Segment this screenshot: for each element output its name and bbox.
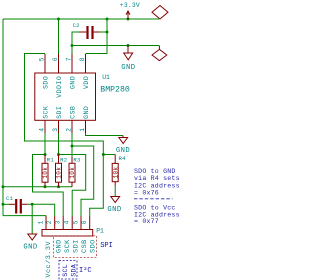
wire SDO pin5 top	[25, 54, 104, 217]
U1 pin numbers bottom 4 3 2 1	[39, 128, 87, 132]
U1 pin names bottom row	[42, 106, 90, 119]
junction GND symbol on rail 2	[127, 44, 130, 47]
U1 pin stubs top	[45, 54, 86, 73]
wire C2 left branch	[72, 32, 79, 54]
ground chip pin1	[119, 136, 128, 144]
junction R1 top / SCK	[44, 153, 47, 156]
wire CSB to R3	[71, 146, 73, 157]
svg-text:2: 2	[66, 128, 73, 132]
junction R1 bottom	[44, 185, 47, 188]
note divider	[134, 198, 173, 200]
svg-text:R2: R2	[60, 157, 67, 164]
svg-text:Vcc/3.3V: Vcc/3.3V	[45, 241, 53, 278]
svg-text:C1: C1	[6, 195, 14, 202]
U1 pin numbers top 5 6 7 8	[38, 57, 86, 61]
ground top (wire2)	[124, 46, 133, 60]
svg-text:I²C: I²C	[79, 267, 92, 275]
svg-text:5: 5	[38, 57, 45, 61]
svg-text:10k: 10k	[112, 167, 119, 179]
svg-text:C2: C2	[73, 22, 80, 29]
svg-text:SDA: SDA	[70, 264, 77, 277]
svg-text:SPI: SPI	[100, 242, 113, 250]
wire vcc to P1 pin1	[3, 215, 46, 217]
svg-text:U1: U1	[102, 74, 110, 81]
wire vcc resistor rail	[3, 186, 72, 188]
junction vcc rail left	[2, 185, 5, 188]
svg-text:GND: GND	[107, 206, 121, 214]
wire gnd to P1 pin2	[32, 204, 55, 216]
ground bottom left	[28, 234, 37, 240]
junction VDD drop on +3.3V rail	[106, 18, 109, 21]
P1 pin stubs	[46, 216, 90, 230]
I2C dashed box	[59, 261, 77, 280]
junction +3.3V power symbol	[127, 18, 130, 21]
resistor R3	[69, 157, 75, 187]
svg-text:BMP280: BMP280	[100, 85, 130, 94]
svg-text:6: 6	[81, 220, 88, 224]
resistor R1	[42, 155, 48, 187]
junction R2 bottom	[57, 185, 60, 188]
wire C2 right branch	[100, 31, 107, 33]
svg-text:R1: R1	[47, 157, 55, 164]
flag diamond top	[152, 6, 168, 20]
svg-text:3: 3	[55, 220, 62, 224]
junction R4 tap / SDO	[102, 153, 105, 156]
wire gnd rail 2	[72, 45, 159, 47]
svg-text:I2C address: I2C address	[134, 182, 180, 189]
svg-text:VDDIO: VDDIO	[56, 76, 63, 98]
wire top +3.3V rail	[3, 18, 159, 20]
wire chip gnd pin1	[86, 133, 124, 136]
svg-text:GND: GND	[55, 239, 63, 253]
svg-text:4: 4	[39, 128, 46, 132]
U1 pin stubs bottom	[45, 120, 86, 133]
note text block	[134, 168, 180, 225]
power +3.3V	[126, 11, 130, 19]
wire SCK net	[33, 133, 64, 216]
svg-text:GND: GND	[121, 64, 135, 72]
capacitor C1	[9, 199, 27, 214]
svg-text:5: 5	[73, 220, 80, 224]
svg-text:4: 4	[64, 220, 71, 224]
junction R2 top / SDI	[57, 153, 60, 156]
svg-text:10k: 10k	[56, 167, 63, 179]
svg-text:= 0x76: = 0x76	[134, 190, 159, 197]
svg-text:SCK: SCK	[64, 239, 72, 253]
svg-text:8: 8	[79, 57, 86, 61]
U1 pin names top row	[42, 76, 90, 98]
junction C2 right plate	[106, 31, 109, 34]
svg-text:VDD: VDD	[83, 76, 90, 89]
svg-text:+3.3V: +3.3V	[120, 2, 140, 9]
wire pin6 VDDIO up	[58, 19, 60, 54]
svg-text:GND: GND	[116, 147, 130, 155]
connector P1 body	[42, 230, 93, 237]
junction C1 right / GND	[31, 203, 34, 206]
SPI dashed box	[54, 236, 97, 258]
svg-text:SCL: SCL	[62, 264, 69, 277]
svg-text:via R4 sets: via R4 sets	[134, 175, 180, 182]
wire R4 tap	[103, 154, 115, 156]
svg-text:CSB: CSB	[69, 106, 76, 119]
wire vdd drop	[86, 19, 108, 54]
svg-text:10k: 10k	[69, 167, 76, 179]
wire SDI net	[59, 133, 86, 216]
svg-text:SDI: SDI	[72, 239, 80, 253]
svg-text:7: 7	[65, 57, 72, 61]
svg-text:R3: R3	[73, 157, 80, 164]
svg-text:2: 2	[46, 220, 53, 224]
P1 pin numbers 1-6	[38, 220, 89, 224]
flag diamond second	[158, 46, 160, 50]
svg-text:GND: GND	[83, 106, 90, 119]
wire R4 bottom to gnd	[114, 186, 116, 197]
svg-text:SDO to GND: SDO to GND	[134, 168, 176, 175]
svg-text:GND: GND	[69, 76, 76, 89]
P1 pin labels below	[45, 239, 97, 278]
svg-text:R4: R4	[119, 155, 127, 162]
wire C1 left lead	[3, 203, 9, 205]
svg-text:SDO: SDO	[42, 76, 49, 89]
svg-text:GND: GND	[23, 243, 37, 251]
IC U1 BMP280 body	[35, 73, 96, 120]
junction VDDIO on +3.3V rail	[57, 18, 60, 21]
svg-text:3: 3	[52, 128, 59, 132]
wire C1 right to gnd	[27, 204, 32, 234]
svg-text:SCK: SCK	[42, 106, 49, 119]
ground R4	[111, 197, 120, 203]
svg-text:= 0x77: = 0x77	[134, 218, 159, 225]
capacitor C2	[79, 26, 100, 39]
junction R3 top / CSB	[71, 145, 74, 148]
svg-text:CSB: CSB	[81, 239, 89, 253]
junction C1 left	[2, 203, 5, 206]
svg-text:SDI: SDI	[56, 106, 63, 119]
resistor R4	[112, 155, 118, 186]
svg-text:P1: P1	[96, 228, 104, 235]
svg-text:1: 1	[38, 220, 45, 224]
svg-text:1: 1	[79, 128, 86, 132]
svg-text:10k: 10k	[42, 167, 49, 179]
wire left vcc vertical	[2, 19, 4, 216]
resistor R2	[56, 155, 62, 187]
junction pin7 GND on rail 2	[71, 44, 74, 47]
wire CSB net	[72, 133, 94, 216]
svg-text:6: 6	[52, 57, 59, 61]
